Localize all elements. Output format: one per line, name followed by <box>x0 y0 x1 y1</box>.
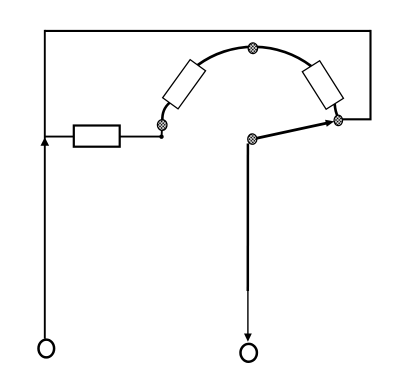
wire junction up to node A <box>161 127 163 137</box>
terminal T2 (middle) <box>241 344 257 362</box>
wire left side <box>44 30 46 339</box>
node B (top of arc) <box>248 43 257 54</box>
arrowhead down <box>244 334 252 342</box>
wire node D down (thick) <box>247 144 250 292</box>
wire top <box>45 30 371 32</box>
wire node A to R2 <box>162 103 169 121</box>
wire thin continuation down <box>247 291 249 335</box>
current arrow up on left wire <box>41 137 50 145</box>
node D <box>248 134 257 144</box>
wire R1 to junction <box>120 136 162 138</box>
node C <box>334 115 343 125</box>
wire to R1 <box>45 136 73 138</box>
resistor R2 <box>163 60 206 109</box>
junction dot <box>159 135 163 139</box>
resistor R3 <box>302 61 343 110</box>
node A <box>157 120 167 131</box>
wire right side <box>342 30 371 119</box>
terminal T1 (left) <box>39 340 55 358</box>
arrowhead at node C <box>325 120 334 127</box>
wire node D to node C (thick) <box>253 123 329 139</box>
wire R3 to node C <box>335 104 338 117</box>
wire arc R2 to R3 <box>198 47 311 66</box>
resistor R1 <box>74 126 120 147</box>
